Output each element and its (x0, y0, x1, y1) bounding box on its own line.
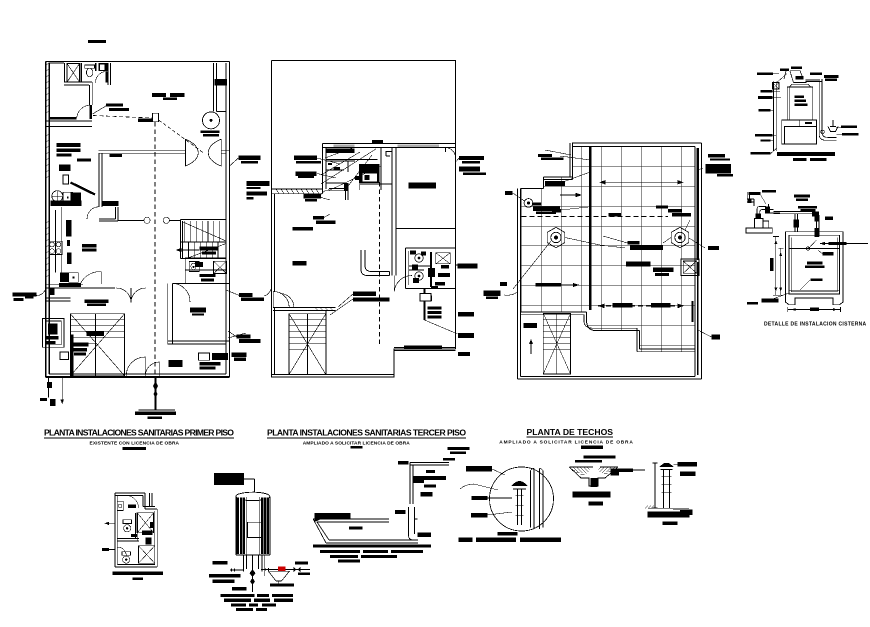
L-counter kitchen plan2 (361, 250, 390, 276)
door arc mid (394, 275, 412, 291)
bars on dashed arrow (612, 303, 632, 307)
double arrow top (599, 181, 683, 183)
bathroom bottom wall (64, 82, 92, 85)
black box bottom room (168, 360, 182, 367)
double door arcs on mid wall (117, 288, 131, 303)
corridor vertical wall (99, 153, 102, 207)
below circle label (498, 532, 518, 536)
inner plate (248, 522, 262, 537)
small bath labels (195, 262, 216, 281)
thick pipe vertical (589, 147, 592, 310)
grid step boundary (521, 312, 695, 349)
bottom right wall black bar (404, 345, 442, 349)
pump pipe black fittings (756, 214, 762, 219)
bath door arc (96, 72, 107, 83)
corridor step (386, 152, 393, 156)
drain pipe black (591, 478, 598, 487)
svg-text:PLANTA INSTALACIONES SANITARIA: PLANTA INSTALACIONES SANITARIAS PRIMER P… (44, 428, 234, 438)
hexagon vent left (547, 227, 565, 247)
kitchen center label (82, 244, 96, 252)
comedor labels (353, 291, 389, 301)
small white node lower right (420, 294, 431, 302)
mid external labels between plans (232, 293, 264, 361)
top-left leader to ext label (545, 150, 571, 155)
ext left bar lower (500, 282, 507, 286)
leader diagonals in bath (321, 148, 381, 190)
plan3 labels (505, 154, 733, 339)
ground bar lavadero (313, 544, 431, 547)
node box 3 (60, 352, 69, 359)
leader from left label (36, 289, 46, 296)
tanque elevado: inlet funnel (784, 71, 803, 83)
window gray bands on top wall (334, 144, 355, 146)
big stair block bottom-left (70, 314, 124, 376)
wall below bathroom down to door (89, 82, 92, 105)
diagonal from pipe to funnel (776, 74, 787, 84)
wall line lower right (394, 347, 456, 350)
labels right bottom (200, 353, 228, 370)
left door arcs (273, 291, 289, 307)
bathroom2 fixtures (415, 254, 423, 262)
wall black segment right (102, 201, 118, 206)
support base (782, 120, 817, 144)
svg-text:AMPLIADO A SOLICITAR LICENCIA: AMPLIADO A SOLICITAR LICENCIA DE OBRA (499, 440, 633, 446)
diagonal thick to kitchen (71, 183, 96, 195)
tank text lines (795, 95, 808, 106)
corridor wall (392, 148, 396, 276)
leader lines from left labels (316, 158, 340, 218)
labels below bath2 (420, 296, 442, 319)
X vent box right (681, 259, 699, 276)
cylinder top ellipse (236, 492, 270, 500)
dashed vertical main (154, 122, 156, 374)
mini bath black labels (128, 505, 154, 545)
center drain valves (252, 555, 254, 592)
4x4 text bar (805, 122, 812, 124)
arrow left lower (536, 284, 579, 286)
toilet bowl (86, 68, 92, 77)
dim tiny text left (770, 258, 774, 271)
upper wall (410, 462, 449, 504)
heavy vertical line left (71, 335, 74, 376)
hot pipe right with red valve (261, 569, 310, 571)
svg-text:AMPLIADO A SOLICITAR LICENCIA: AMPLIADO A SOLICITAR LICENCIA DE OBRA (303, 440, 411, 446)
black bar under sink (59, 283, 81, 287)
labels right vent (677, 462, 697, 515)
leader curve from below-left (505, 292, 518, 295)
second pipe drop into cistern (795, 214, 798, 232)
bottom-right room top wall (173, 282, 230, 284)
kitchen sink unit (60, 273, 68, 283)
bars above (583, 455, 615, 458)
bottom dim (788, 307, 841, 312)
black bar under washers (50, 201, 81, 206)
bathroom block top-left: shower stall (67, 64, 80, 83)
leader lines cistern labels (760, 194, 823, 300)
leader ext right (456, 158, 460, 265)
mid wall (117, 539, 139, 542)
left below-plan pipes (49, 377, 63, 404)
dashed vertical plan2 (378, 182, 380, 345)
window node box (198, 353, 209, 360)
hall door line with knobs (118, 219, 180, 221)
stair labels (200, 247, 219, 255)
heavy pipe line bath2 (431, 252, 438, 287)
junction node box (152, 113, 158, 122)
leader hexagon to lower-left (513, 241, 551, 289)
labels right of wall (349, 447, 470, 537)
bottom-right room walls (168, 283, 230, 344)
parapet walls inside (531, 469, 544, 530)
pipe top horizontal from funnel (806, 80, 823, 82)
caption bars tank (793, 158, 807, 161)
cistern text (805, 262, 825, 268)
faucet right (828, 120, 838, 132)
valve box on left pipe (773, 83, 779, 89)
svg-text:PLANTA INSTALACIONES SANITARIA: PLANTA INSTALACIONES SANITARIAS TERCER P… (267, 428, 466, 438)
roof tile grid (517, 147, 700, 380)
pump pipe elbows (757, 204, 769, 219)
door arc (77, 105, 91, 118)
washer box (63, 192, 73, 203)
detail circle (490, 467, 554, 531)
float valve inside (808, 240, 817, 248)
right room door arc (446, 148, 456, 159)
bathroom2 shower X (436, 253, 450, 264)
labels left column plan2 (292, 156, 335, 266)
kitchen bottom wall (46, 284, 115, 288)
stairs arrow (177, 248, 200, 251)
mid horizontal wall (99, 151, 230, 154)
left pipe assembly (230, 569, 244, 571)
stairs border (180, 220, 226, 259)
shower white box inside blob (362, 173, 377, 182)
labels near stair block (70, 299, 108, 355)
stairs top-right treads (180, 221, 226, 259)
float ball (821, 130, 825, 134)
door arc bottom-right room (173, 283, 191, 302)
small bath under stairs (185, 258, 226, 283)
wall below doors (273, 307, 335, 310)
top labels tank (780, 67, 839, 82)
label in bottom-right room (190, 307, 206, 312)
sink black counter (99, 63, 108, 71)
left pipe stub (104, 522, 115, 524)
right room bottom wall (396, 228, 456, 230)
right wall inner thick segment (691, 301, 693, 322)
stair block plan2 (289, 314, 326, 375)
dim line left (773, 237, 783, 296)
inner verticals (246, 497, 260, 555)
funnel shape (569, 467, 618, 486)
mushroom cap (512, 481, 528, 486)
wall band lines (46, 121, 92, 127)
right corner black (611, 468, 633, 475)
plan1 right wall (226, 62, 230, 378)
svg-text:DETALLE DE INSTALACION CISTERN: DETALLE DE INSTALACION CISTERNA (764, 322, 867, 328)
therma caption rows (221, 594, 294, 611)
diamonds on pipe (294, 567, 301, 573)
left labels cluster mid (57, 143, 91, 171)
label above circle (466, 466, 492, 472)
label bar above plan1 (88, 40, 106, 43)
bathroom right wall (108, 63, 110, 85)
black box on right wall (215, 79, 228, 86)
external left label cluster (12, 293, 36, 302)
bowtie double door (185, 139, 221, 166)
ground bar tank (777, 152, 835, 156)
svg-text:EXISTENTE CON LICENCIA DE OBRA: EXISTENTE CON LICENCIA DE OBRA (90, 441, 180, 447)
toilet tank (85, 65, 95, 68)
stove (49, 241, 62, 254)
water line (789, 247, 839, 249)
side black bands (237, 498, 245, 555)
washer circle-cross (52, 191, 63, 202)
big black label above basin (315, 513, 351, 522)
bar left of wall (398, 461, 408, 465)
leaders mid externals (228, 288, 272, 337)
pipe ticks (516, 495, 524, 515)
stairs plan3 (543, 313, 570, 374)
basin profile (313, 519, 418, 543)
thick pipe below bath2 (424, 288, 426, 320)
bar below funnel (573, 492, 611, 498)
labels cluster near door (106, 93, 185, 122)
wall right interior vertical (214, 63, 227, 112)
inner wall vertical (136, 513, 138, 541)
tank body (787, 87, 813, 120)
external right labels plan1 (238, 156, 269, 200)
patio right wall (323, 144, 326, 194)
left tiny labels tank (751, 72, 773, 154)
concrete hatch left (570, 468, 615, 474)
hexagon vent right (671, 227, 689, 247)
fan circle (203, 112, 220, 129)
stair right wall (325, 311, 327, 375)
black unit right of washer (71, 192, 82, 203)
cylinder body (236, 496, 270, 555)
leaders into circle (460, 484, 512, 515)
door arc kitchen to room (80, 272, 101, 284)
funnel to tank neck (789, 83, 811, 88)
door arc mid-left (117, 547, 126, 556)
bathroom2 walls (406, 248, 456, 288)
cistern inner box (789, 235, 839, 294)
small circle left edge (524, 199, 533, 208)
bath right wall (359, 148, 391, 191)
black block below kitchen wall (49, 289, 55, 295)
door arc top (126, 496, 139, 509)
plan1 bottom wall (46, 376, 230, 378)
door arc patio lower (320, 190, 330, 197)
black bar above interior wall (372, 140, 383, 143)
black elbow fill (812, 212, 819, 222)
plan3 right wall (695, 143, 701, 379)
wc compartment wall (95, 63, 97, 71)
sink top-left (117, 501, 123, 510)
leader from door to node (93, 104, 111, 115)
mushroom cap2 (660, 463, 674, 467)
bottom pipe drop (154, 377, 156, 410)
vent pipe (518, 489, 522, 525)
extra black marks bath2 (410, 251, 449, 286)
left pipe (773, 82, 776, 152)
pipe into cistern (774, 212, 815, 214)
caption rows lavadero (320, 550, 423, 563)
right room label (409, 183, 436, 189)
dashed arrow lower (598, 305, 684, 307)
plan1 outer left wall (46, 62, 50, 378)
long leader right (820, 243, 868, 245)
label bar under mid wall (109, 154, 122, 157)
double door arcs bottom center (126, 357, 145, 376)
sink basin (100, 64, 105, 70)
bath black blobs (328, 163, 379, 191)
leader lines left labels (771, 74, 781, 154)
funnel below (268, 571, 289, 581)
caption row circle (459, 538, 561, 542)
arrow mid-left (560, 194, 578, 196)
small bath fixtures (189, 262, 199, 272)
vertical black bars in kitchen (66, 220, 72, 264)
right labels tank (841, 126, 858, 136)
legs (244, 555, 265, 576)
diagonal from node to bowtie door (159, 120, 203, 153)
svg-text:PLANTA DE TECHOS: PLANTA DE TECHOS (527, 427, 614, 437)
pipe labels right (295, 562, 310, 576)
leader from comedor (330, 294, 353, 315)
plan3 bottom wall (517, 376, 701, 378)
therma labels (209, 561, 247, 590)
basin right pipe up (409, 507, 418, 540)
leaders plan3 (513, 156, 712, 337)
wall black bar left-mid (49, 117, 77, 120)
right pipe (819, 79, 836, 140)
top right notch (143, 493, 157, 509)
leader lines to right labels (226, 290, 246, 338)
big label bar in bath (326, 149, 354, 153)
plan2 outer boundary (272, 61, 456, 377)
mini bath outer walls (115, 493, 157, 567)
left wall hatch ticks (46, 63, 50, 279)
short wall left above tank (46, 298, 71, 301)
red valve (278, 567, 286, 572)
patio bottom wall with hatch (272, 189, 323, 194)
toilet upper (123, 520, 132, 524)
dashed line mid (522, 216, 668, 218)
plan2 left inner wall (274, 194, 276, 375)
door leaf below (90, 105, 92, 119)
corridor L wall (99, 207, 118, 221)
cistern outer box (786, 232, 844, 305)
plan3 outline stepped (517, 143, 701, 379)
dim line2 (653, 463, 658, 508)
stairs arrow up (530, 341, 532, 354)
left labels circle (471, 496, 487, 517)
door arc corridor top (87, 207, 116, 219)
leader to ext labels (230, 158, 239, 166)
bath walls (326, 160, 378, 162)
labels below fan (201, 130, 220, 136)
plan1 top wall (46, 61, 230, 63)
pipe2 (664, 470, 670, 509)
ground bar (138, 409, 175, 411)
black corner piece (413, 476, 446, 483)
bath lower wall (329, 188, 348, 200)
ground hatch2 (645, 506, 689, 509)
node box 2 (63, 175, 69, 184)
mini bath bottom bars (113, 572, 163, 576)
inner bottom (789, 289, 839, 291)
dashed line door to node (93, 116, 152, 119)
shower X upper (137, 513, 153, 533)
toilet lower (122, 552, 131, 556)
interior top wall (323, 144, 456, 148)
kitchen counter band (49, 207, 62, 283)
shower X lower (138, 546, 154, 564)
labels cistern (747, 190, 847, 305)
pump assembly top-left (747, 192, 754, 206)
external right labels plan2 (458, 156, 501, 356)
shower stall right wall (80, 63, 82, 82)
left tank (43, 319, 64, 348)
ground bar2 (648, 511, 690, 517)
label box with leader (214, 473, 244, 485)
